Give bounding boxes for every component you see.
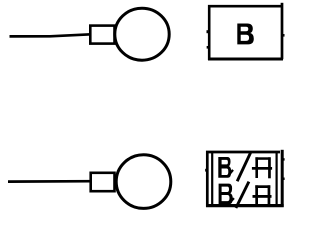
lamp 2 bulb: [116, 155, 171, 209]
wire W1 (to lamp 1): [10, 34, 92, 36]
connector box (labelled B/R, B/R): [206, 150, 284, 207]
lamp 1 socket base: [90, 26, 114, 44]
value label B/R row 2 (black/red wire): [219, 182, 272, 208]
wire W2 (to lamp 2): [8, 180, 92, 183]
letter B: [218, 157, 231, 178]
slash: [237, 153, 250, 182]
scan ticks on box edges: [206, 30, 208, 33]
letter B: [219, 184, 233, 205]
letter R: [255, 185, 258, 204]
lamp 1 bulb: [115, 8, 169, 60]
slash: [236, 182, 249, 208]
slash tail tick: [228, 198, 234, 204]
value label B (black wire): [237, 24, 254, 45]
letter R: [255, 157, 258, 178]
value label B/R row 1 (black/red wire): [218, 153, 272, 182]
slash tail tick: [228, 170, 233, 177]
scan ticks on box edges: [205, 169, 207, 172]
inner left border line: [211, 153, 213, 206]
connector box (labelled B): [207, 3, 283, 60]
inner right border line: [276, 153, 278, 206]
lamp 2 socket base: [91, 173, 115, 191]
